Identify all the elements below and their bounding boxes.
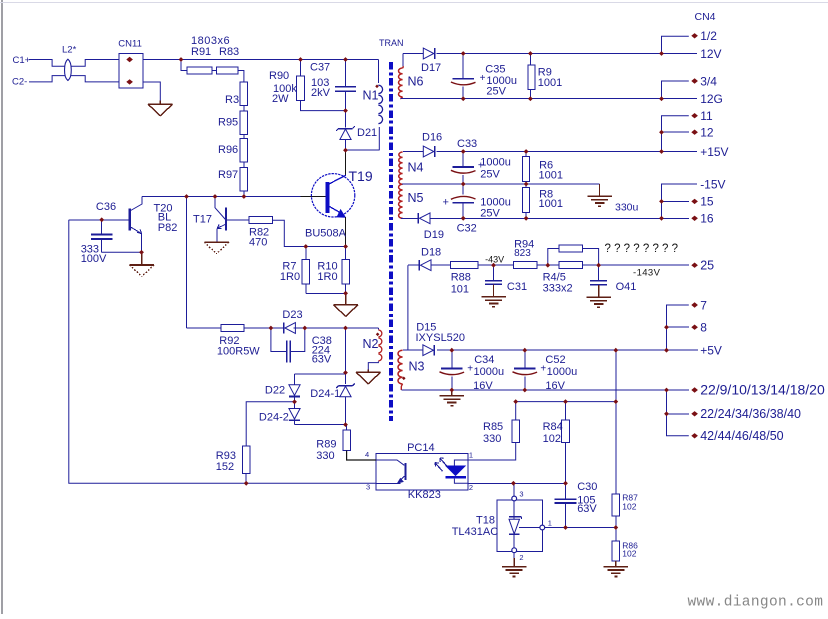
svg-text:O41: O41 (616, 281, 637, 293)
svg-text:25: 25 (700, 259, 714, 273)
svg-text:C32: C32 (457, 223, 477, 235)
svg-text:BU508A: BU508A (305, 228, 347, 240)
svg-text:TL431AC: TL431AC (452, 526, 499, 538)
svg-text:8: 8 (700, 321, 707, 335)
svg-text:100V: 100V (81, 253, 107, 265)
svg-text:C2-: C2- (12, 77, 27, 88)
svg-text:N5: N5 (408, 191, 424, 205)
svg-text:KK823: KK823 (408, 489, 441, 501)
svg-text:N4: N4 (408, 161, 424, 175)
svg-text:TRAN: TRAN (379, 38, 404, 48)
svg-text:D22: D22 (265, 385, 285, 397)
svg-text:+: + (480, 73, 486, 84)
svg-text:R96: R96 (218, 144, 238, 156)
svg-text:C37: C37 (310, 62, 330, 74)
svg-text:R3: R3 (225, 94, 239, 106)
svg-text:D18: D18 (421, 246, 441, 258)
svg-text:PC14: PC14 (407, 442, 435, 454)
svg-text:102: 102 (622, 549, 636, 559)
svg-text:1001: 1001 (539, 198, 563, 210)
svg-text:42/44/46/48/50: 42/44/46/48/50 (700, 429, 783, 443)
svg-text:D24-2: D24-2 (259, 411, 289, 423)
svg-text:7: 7 (700, 298, 707, 312)
svg-text:16: 16 (700, 212, 714, 226)
svg-text:12: 12 (700, 126, 714, 140)
svg-text:15: 15 (700, 195, 714, 209)
svg-text:1001: 1001 (538, 77, 562, 89)
svg-text:330: 330 (316, 450, 334, 462)
svg-text:N2: N2 (363, 337, 379, 351)
svg-text:D24-1: D24-1 (310, 388, 340, 400)
svg-text:1R0: 1R0 (317, 271, 337, 283)
svg-text:+15V: +15V (700, 145, 728, 159)
svg-text:C33: C33 (457, 138, 477, 150)
svg-text:3: 3 (519, 490, 523, 499)
svg-text:1: 1 (469, 450, 473, 459)
svg-text:www.diangon.com: www.diangon.com (688, 595, 824, 611)
svg-text:R89: R89 (316, 438, 336, 450)
svg-text:63V: 63V (312, 353, 332, 365)
svg-text:25V: 25V (480, 208, 500, 220)
svg-text:101: 101 (451, 283, 469, 295)
svg-text:CN11: CN11 (118, 38, 142, 49)
svg-text:D17: D17 (421, 62, 441, 74)
svg-text:22/9/10/13/14/18/20: 22/9/10/13/14/18/20 (700, 381, 825, 397)
svg-text:2: 2 (519, 553, 523, 562)
svg-text:+: + (443, 197, 449, 209)
svg-text:D23: D23 (282, 309, 302, 321)
svg-text:3: 3 (366, 483, 370, 492)
svg-text:C36: C36 (96, 201, 116, 213)
svg-text:R84: R84 (543, 421, 563, 433)
svg-text:1000u: 1000u (547, 366, 578, 378)
svg-text:63V: 63V (577, 503, 597, 515)
svg-text:R85: R85 (483, 421, 503, 433)
svg-text:C30: C30 (577, 481, 597, 493)
svg-text:T17: T17 (193, 214, 212, 226)
svg-text:1/2: 1/2 (700, 29, 717, 43)
svg-text:12G: 12G (700, 92, 723, 106)
svg-text:C1+: C1+ (13, 55, 31, 66)
svg-text:1: 1 (548, 519, 552, 528)
svg-text:? ? ? ? ? ? ? ?: ? ? ? ? ? ? ? ? (605, 243, 679, 255)
svg-text:823: 823 (514, 248, 531, 259)
svg-text:25V: 25V (480, 169, 500, 181)
svg-text:330: 330 (483, 433, 501, 445)
svg-text:R88: R88 (451, 272, 471, 284)
svg-text:330u: 330u (615, 201, 639, 213)
svg-text:D21: D21 (357, 127, 377, 139)
svg-text:11: 11 (700, 109, 713, 123)
svg-text:IXYSL520: IXYSL520 (416, 332, 466, 344)
svg-text:R91: R91 (191, 46, 211, 58)
svg-text:1R0: 1R0 (280, 271, 300, 283)
svg-text:CN4: CN4 (695, 11, 716, 23)
svg-text:1000u: 1000u (480, 156, 511, 168)
svg-text:2: 2 (469, 483, 473, 492)
svg-text:N6: N6 (408, 75, 424, 89)
svg-text:470: 470 (249, 237, 267, 249)
svg-text:2kV: 2kV (311, 87, 331, 99)
svg-text:333x2: 333x2 (543, 283, 573, 295)
svg-text:1001: 1001 (539, 170, 563, 182)
svg-text:-15V: -15V (700, 177, 725, 191)
svg-text:R93: R93 (216, 450, 236, 462)
svg-text:1000u: 1000u (474, 366, 505, 378)
svg-text:R90: R90 (269, 70, 289, 82)
svg-text:L2*: L2* (62, 45, 77, 56)
svg-text:C52: C52 (545, 354, 565, 366)
svg-text:+: + (467, 364, 473, 375)
svg-text:T18: T18 (476, 515, 495, 527)
svg-text:2W: 2W (272, 93, 289, 105)
svg-text:22/24/34/36/38/40: 22/24/34/36/38/40 (700, 407, 801, 421)
svg-text:N1: N1 (363, 89, 379, 103)
svg-text:25V: 25V (486, 85, 506, 97)
svg-text:+5V: +5V (700, 344, 722, 358)
svg-text:P82: P82 (158, 222, 178, 234)
svg-text:4: 4 (365, 450, 369, 459)
svg-text:T19: T19 (349, 168, 373, 184)
svg-text:R83: R83 (219, 46, 239, 58)
svg-text:+: + (540, 364, 546, 375)
svg-text:-143V: -143V (633, 268, 661, 279)
svg-text:3/4: 3/4 (700, 74, 717, 88)
svg-text:100R5W: 100R5W (217, 346, 260, 358)
svg-text:R95: R95 (218, 117, 238, 129)
svg-text:N3: N3 (409, 359, 425, 373)
svg-text:D19: D19 (424, 229, 444, 241)
svg-text:152: 152 (216, 461, 234, 473)
svg-text:-43V: -43V (485, 254, 504, 264)
svg-text:R97: R97 (218, 169, 238, 181)
svg-text:C35: C35 (485, 63, 505, 75)
svg-text:C34: C34 (474, 354, 494, 366)
svg-text:C31: C31 (507, 281, 527, 293)
svg-text:D16: D16 (422, 132, 442, 144)
svg-text:102: 102 (622, 502, 636, 512)
svg-text:12V: 12V (700, 47, 721, 61)
svg-text:102: 102 (543, 433, 561, 445)
